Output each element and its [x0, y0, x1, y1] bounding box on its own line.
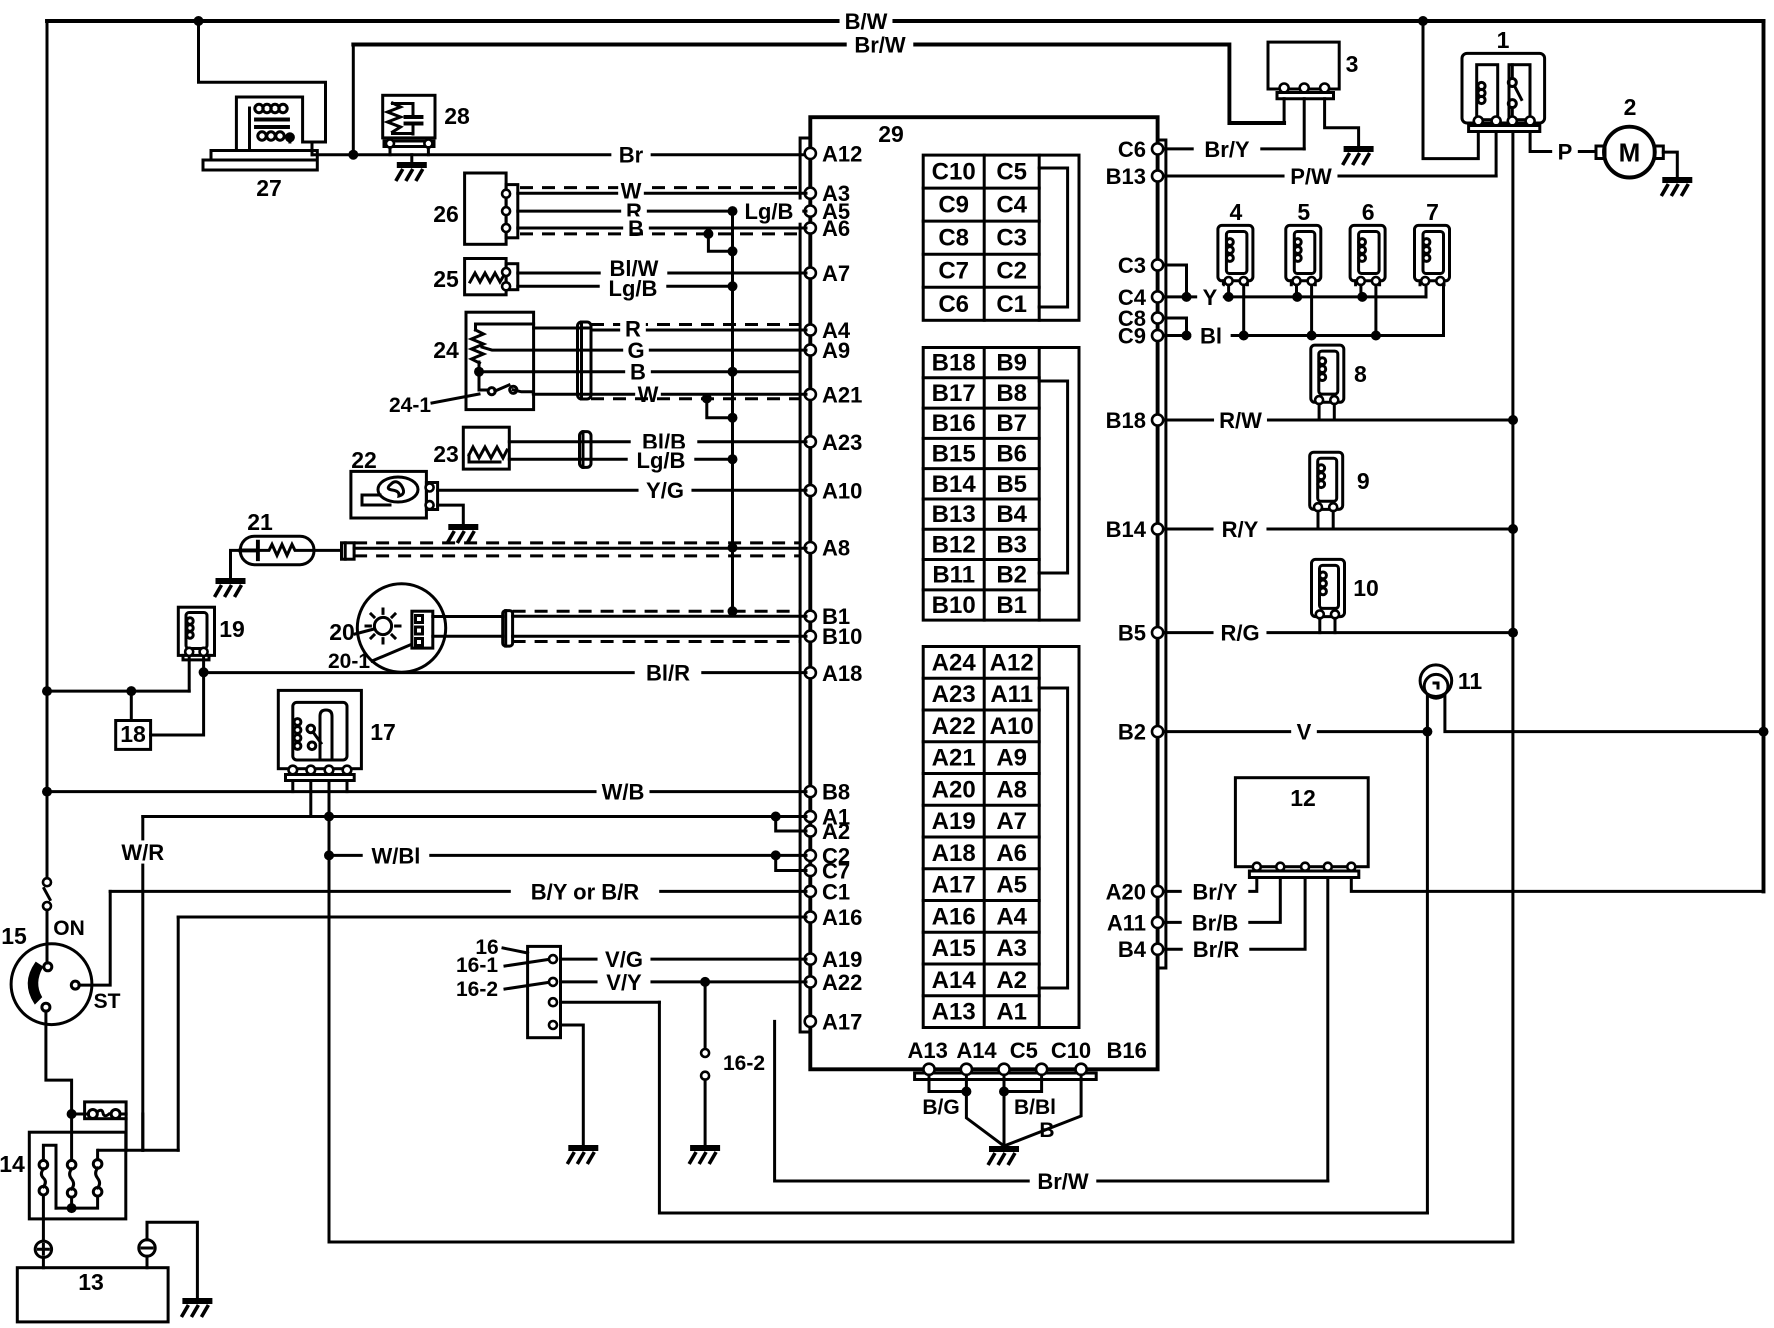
fusible link box 14 — [29, 1132, 126, 1219]
svg-text:M: M — [1619, 138, 1641, 168]
ECU pin C4 — [1152, 291, 1163, 302]
wire igniter pin4 to Br/W bottom bus — [1326, 878, 1329, 1182]
svg-text:2: 2 — [1624, 94, 1637, 120]
ground below condenser 28 — [396, 165, 427, 181]
relay 17 contacts — [307, 725, 315, 733]
wire link2 top to fuse bus — [70, 1114, 73, 1160]
svg-text:ST: ST — [94, 990, 121, 1013]
ECU pin B8 — [805, 786, 816, 797]
label R/W — [1214, 408, 1267, 433]
svg-text:A23: A23 — [822, 430, 862, 455]
svg-text:B: B — [628, 216, 644, 241]
ECU pin C2 — [805, 850, 816, 861]
ECU pin B5 — [1152, 627, 1163, 638]
wire ECU B16 to ground — [1004, 1075, 1081, 1146]
junction dot Lg/B 23 — [728, 454, 738, 464]
AFM 24-1 leader line — [432, 394, 479, 403]
svg-text:Bl: Bl — [1200, 323, 1222, 348]
injector 5 body — [1286, 225, 1321, 280]
svg-text:Bl/R: Bl/R — [646, 660, 690, 685]
ECU pin A20 — [1152, 886, 1163, 897]
wire relay 19 left pin down — [188, 656, 191, 691]
svg-text:A10: A10 — [822, 479, 862, 504]
wire link1 top loop — [43, 1145, 56, 1208]
ECU pin B18 — [1152, 414, 1163, 425]
svg-text:A3: A3 — [996, 935, 1027, 962]
svg-text:Br/W: Br/W — [1037, 1169, 1089, 1194]
junction dot Lg/B A5 — [728, 206, 738, 216]
label V/Y — [598, 970, 651, 995]
wire injector 6 left pin drop — [1359, 285, 1362, 297]
svg-text:A21: A21 — [822, 382, 862, 407]
wire diode 18 to feed bus — [130, 691, 133, 720]
wire igniter pin5 to B/W right edge — [1351, 732, 1763, 892]
wire R/W from ECU B18 to coil 8 and relay feed — [1160, 419, 1513, 422]
wire battery negative to ground — [147, 1222, 197, 1298]
junction dot B 24 — [728, 367, 738, 377]
relay 19 box — [178, 607, 214, 655]
svg-text:A19: A19 — [822, 947, 862, 972]
ground ECU main — [988, 1149, 1019, 1165]
wire sensor 22 to ground — [438, 505, 464, 524]
sensor 26 pins — [502, 190, 510, 198]
wire R from sensor 26 to ECU A5 — [518, 210, 806, 213]
ECU pin A9 — [805, 344, 816, 355]
wire feed bus to relay 19 — [47, 690, 189, 693]
ECU pin A11 — [1152, 917, 1163, 928]
ECU pin A5 — [805, 206, 816, 217]
junction dot V/Y test branch — [700, 977, 710, 987]
svg-text:B12: B12 — [932, 531, 976, 558]
ECU pin A3 — [805, 188, 816, 199]
ECU pin A23 — [805, 436, 816, 447]
inline connector for 23 — [580, 432, 592, 468]
wire W/Bl line to ECU C2 — [329, 854, 806, 857]
junction dot fuse bus — [67, 1109, 77, 1119]
svg-text:28: 28 — [444, 103, 470, 129]
oxygen sensor 22 pins — [426, 484, 434, 492]
wire motor 2 to ground — [1663, 152, 1677, 177]
svg-text:A8: A8 — [996, 776, 1027, 803]
battery positive terminal — [35, 1241, 51, 1257]
ECU pin A12 — [805, 148, 816, 159]
wire Y rail from ECU C4 to injectors — [1160, 295, 1426, 298]
junction dot R/W feed — [1508, 415, 1518, 425]
svg-text:R/G: R/G — [1220, 621, 1259, 646]
svg-text:20-1: 20-1 — [328, 650, 370, 673]
svg-text:29: 29 — [878, 121, 904, 147]
wire connector 16 pin3 to bottom bus 2 — [561, 1001, 660, 1004]
sensor 25 pins — [502, 268, 510, 276]
ground battery — [181, 1301, 212, 1317]
wire W/R lower vertical — [141, 1114, 144, 1150]
svg-text:B6: B6 — [996, 441, 1027, 468]
wire V/G from 16-1 to ECU A19 — [561, 958, 807, 961]
wire bottom bus 3 from relay 17 to relay 1 pin3 — [329, 1241, 1513, 1244]
ECU pin B13 — [1152, 170, 1163, 181]
wire B/W drop to relay 1 pin1 — [1423, 21, 1478, 159]
svg-text:Br/Y: Br/Y — [1192, 879, 1238, 904]
ignition switch 15 contacts — [44, 963, 52, 971]
svg-text:B10: B10 — [932, 592, 976, 619]
relay 1 coil chamber — [1477, 65, 1498, 120]
wire coil 10 pins to rail — [1320, 618, 1335, 632]
label P/W — [1285, 164, 1338, 189]
relay 1 box — [1462, 53, 1545, 123]
svg-text:14: 14 — [0, 1151, 25, 1177]
svg-text:C5: C5 — [1010, 1038, 1038, 1063]
label R/Y — [1214, 517, 1267, 542]
label W/B — [597, 780, 650, 805]
label P — [1552, 139, 1578, 164]
svg-text:A12: A12 — [822, 141, 862, 166]
relay 1 bracket — [1469, 126, 1540, 132]
svg-text:A6: A6 — [822, 216, 850, 241]
wire R/G from ECU B5 to coil 10 and feed — [1160, 631, 1513, 634]
svg-text:B9: B9 — [996, 350, 1027, 377]
label Lg/B mid — [600, 276, 667, 301]
junction dot C8-Bl — [1182, 331, 1192, 341]
shield dashed R — [591, 323, 800, 326]
wire Br/Y from ECU C6 to box 3 — [1160, 147, 1304, 150]
ECU pin A1 — [805, 811, 816, 822]
wire condenser 28 left pin to Br — [389, 148, 392, 155]
injector 7 pins — [1420, 281, 1444, 285]
svg-text:A24: A24 — [932, 649, 977, 676]
svg-text:15: 15 — [1, 923, 27, 949]
shield dashed A8 top — [354, 541, 800, 544]
ECU pin A6 — [805, 222, 816, 233]
injector 6 pins — [1356, 281, 1380, 285]
wire bottom bus 2 from connector 16 to component 11 — [659, 1002, 1427, 1213]
ECU pin A2 — [805, 825, 816, 836]
svg-text:B8: B8 — [822, 780, 850, 805]
wire relay 19 right pin to Bl/R — [151, 656, 204, 735]
AFM 24-1 pump contact switch — [488, 388, 495, 395]
svg-text:B: B — [1039, 1119, 1054, 1142]
svg-text:B14: B14 — [1106, 517, 1147, 542]
wire A16 line — [178, 916, 806, 919]
label B/W — [840, 9, 893, 34]
label Bl/R — [635, 660, 702, 685]
wire ECU A14 to ground — [966, 1075, 1004, 1146]
wire A1 line — [143, 815, 806, 818]
AFM 24 wiper — [482, 347, 534, 350]
svg-text:R/W: R/W — [1219, 408, 1262, 433]
svg-text:B/Bl: B/Bl — [1014, 1096, 1056, 1119]
connector 16 box — [528, 946, 561, 1037]
svg-text:C1: C1 — [996, 291, 1027, 318]
svg-text:P: P — [1558, 139, 1573, 164]
label Lg/B lower — [628, 448, 695, 473]
wire 16-2 to ground — [704, 1080, 707, 1145]
svg-text:19: 19 — [219, 616, 245, 642]
junction dot feed bus diode — [126, 686, 136, 696]
shield dashed W — [520, 186, 800, 189]
node 16-2 break upper — [701, 1049, 709, 1057]
ECU pin A8 — [805, 542, 816, 553]
svg-text:A6: A6 — [996, 840, 1027, 867]
junction dot R/G feed — [1508, 628, 1518, 638]
svg-text:A22: A22 — [932, 713, 976, 740]
wire injector 5 left pin drop — [1295, 285, 1298, 297]
svg-text:16-2: 16-2 — [723, 1052, 765, 1075]
node 16-2 break lower — [701, 1072, 709, 1080]
fuel pump motor 2 — [1604, 127, 1655, 178]
junction dot hook — [728, 246, 738, 256]
shielded cable connector A8 — [342, 543, 355, 559]
wire knock sensor to ground — [231, 550, 241, 578]
svg-text:1: 1 — [1497, 27, 1510, 53]
svg-text:B4: B4 — [996, 501, 1027, 528]
relay 1 pins — [1474, 117, 1483, 126]
svg-text:C6: C6 — [1118, 137, 1146, 162]
battery negative terminal — [139, 1240, 155, 1256]
injector 4 body — [1218, 225, 1253, 280]
label B upper — [623, 216, 649, 241]
svg-text:B7: B7 — [996, 410, 1027, 437]
wire ignition switch to fuse bus — [46, 1011, 72, 1114]
svg-text:A20: A20 — [1106, 879, 1146, 904]
junction dot Lg/B 25 — [728, 281, 738, 291]
junction dot B/W to relay 1 — [1418, 16, 1428, 26]
relay 17 pins — [289, 766, 298, 775]
svg-text:B2: B2 — [996, 562, 1027, 589]
condenser 28 pins — [386, 140, 394, 148]
ECU connector table A — [923, 647, 1079, 1028]
wire relay 1 pin2 to P/W — [1495, 132, 1498, 177]
svg-text:3: 3 — [1346, 51, 1359, 77]
ECU pin C3 — [1152, 259, 1163, 270]
junction dot Bl/R branch — [199, 667, 209, 677]
svg-text:B18: B18 — [932, 350, 976, 377]
label Br/Y lower — [1182, 879, 1249, 904]
svg-text:24: 24 — [433, 337, 459, 363]
svg-text:12: 12 — [1290, 785, 1316, 811]
ECU pin A10 — [805, 485, 816, 496]
svg-text:B3: B3 — [996, 531, 1027, 558]
ECU pin A21 — [805, 389, 816, 400]
junction dot B/G — [961, 1087, 971, 1097]
wire left vertical connector break — [43, 878, 51, 886]
junction dot W hook — [728, 413, 738, 423]
svg-text:W/Bl: W/Bl — [372, 843, 421, 868]
relay 1 switch chamber — [1509, 65, 1530, 120]
svg-text:Br/R: Br/R — [1193, 937, 1240, 962]
ECU pin A7 — [805, 267, 816, 278]
svg-text:4: 4 — [1230, 199, 1243, 225]
condenser 28 connector bracket — [384, 141, 434, 147]
svg-text:6: 6 — [1362, 199, 1375, 225]
svg-text:10: 10 — [1353, 575, 1379, 601]
wire B/Y or B/R line to ECU C1 — [110, 890, 806, 893]
svg-text:A15: A15 — [932, 935, 976, 962]
connector 16 leader lines — [503, 948, 548, 989]
wire Br/Y from ECU A20 to igniter pin1 — [1160, 878, 1257, 892]
svg-text:C10: C10 — [932, 159, 976, 186]
wire condenser 28 right pin to Br — [427, 148, 430, 155]
ECU pin B10 — [805, 631, 816, 642]
svg-text:27: 27 — [256, 175, 282, 201]
svg-text:A23: A23 — [932, 681, 976, 708]
svg-text:A13: A13 — [932, 999, 976, 1026]
distributor 20 housing — [357, 584, 445, 672]
ECU 29 box — [810, 117, 1157, 1069]
connector 16 pins — [549, 955, 557, 963]
svg-text:A18: A18 — [932, 840, 976, 867]
knock sensor 21 crystal — [240, 542, 258, 560]
svg-text:Br/B: Br/B — [1192, 910, 1238, 935]
svg-text:C10: C10 — [1051, 1038, 1091, 1063]
svg-text:C9: C9 — [938, 192, 969, 219]
svg-text:16-1: 16-1 — [456, 954, 498, 977]
ECU pin C6 — [1152, 143, 1163, 154]
wire injector 7 left pin riser — [1425, 285, 1428, 297]
oxygen sensor 22 element — [378, 477, 418, 502]
wire B from AFM — [534, 370, 800, 373]
svg-text:A14: A14 — [956, 1038, 997, 1063]
svg-text:A5: A5 — [996, 872, 1027, 899]
svg-text:Y: Y — [1203, 285, 1218, 310]
svg-text:B13: B13 — [932, 501, 976, 528]
fuse holder box — [85, 1102, 127, 1119]
ECU pin A17 — [805, 1016, 816, 1027]
junction dot C2-C7 branch — [771, 850, 781, 860]
wire A16 vertical — [177, 917, 180, 1150]
ECU pin B14 — [1152, 523, 1163, 534]
junction dot B1 shield — [728, 606, 738, 616]
svg-text:A4: A4 — [996, 903, 1027, 930]
condenser 28 resistor zigzag — [388, 103, 401, 132]
wire relay 1 pin4 to motor — [1530, 132, 1596, 152]
svg-text:C7: C7 — [938, 258, 969, 285]
junction dot link bottom bus — [67, 1203, 77, 1213]
label W/R — [116, 840, 169, 865]
svg-text:B17: B17 — [932, 380, 976, 407]
junction dot W/Bl pin3 — [324, 850, 334, 860]
junction dot A1 pin3 — [324, 812, 334, 822]
wire injector 4 right pin drop — [1242, 285, 1245, 336]
wire Bl/W from sensor 25 to ECU A7 — [518, 272, 806, 275]
ECU left pin strip — [800, 138, 810, 1032]
ground below connector 16 — [567, 1148, 598, 1164]
svg-text:A11: A11 — [1107, 910, 1146, 935]
svg-text:20: 20 — [329, 619, 355, 645]
junction dot A1-A2 branch — [771, 812, 781, 822]
ignition switch 15 lever — [29, 963, 42, 1003]
svg-text:V/G: V/G — [605, 947, 643, 972]
wire B from sensor 26 to ECU A6 — [518, 227, 806, 230]
ignition coil 27 body outline — [236, 97, 325, 151]
label Bl/B — [631, 430, 698, 455]
AFM 24 internal node — [476, 324, 534, 330]
junction dot W/B at left vertical — [42, 787, 52, 797]
svg-text:18: 18 — [120, 721, 146, 747]
junction dot V right edge — [1759, 727, 1769, 737]
svg-text:B5: B5 — [996, 471, 1027, 498]
label Bl — [1191, 323, 1230, 348]
wire relay 17 pin1 to W/B bus — [291, 781, 294, 792]
label Br/B — [1182, 910, 1249, 935]
label Br/Y top — [1194, 137, 1261, 162]
svg-text:A7: A7 — [996, 808, 1027, 835]
svg-text:V: V — [1297, 720, 1312, 745]
wire component 11 right lead and V continuation — [1445, 696, 1764, 732]
svg-text:5: 5 — [1297, 199, 1310, 225]
sensor 26 connector strip — [506, 185, 518, 238]
igniter 12 pins — [1253, 863, 1261, 871]
svg-text:A12: A12 — [990, 649, 1034, 676]
label R upper — [621, 199, 647, 224]
wire P/W from ECU B13 to relay 1 — [1160, 175, 1496, 178]
label Bl/W — [601, 256, 668, 281]
wire Br/W top bus — [353, 45, 1284, 124]
ECU pin A19 — [805, 954, 816, 965]
ECU pin A13 — [923, 1064, 934, 1075]
svg-text:V/Y: V/Y — [606, 970, 642, 995]
svg-text:Br/W: Br/W — [854, 32, 906, 57]
injector 7 body — [1415, 225, 1450, 280]
ECU pin B16 — [1076, 1064, 1087, 1075]
shield dashed B — [520, 232, 800, 235]
relay 1 switch contacts — [1508, 79, 1516, 87]
svg-text:A14: A14 — [932, 967, 977, 994]
wire B1 to ECU — [513, 615, 806, 618]
wire Bl rail from ECU C9 to injectors — [1160, 334, 1444, 337]
wire W/B bus — [47, 790, 806, 793]
svg-text:Br: Br — [619, 143, 644, 168]
wire distributor B1 to connector — [433, 617, 503, 637]
ECU pin A4 — [805, 324, 816, 335]
svg-text:A18: A18 — [822, 661, 862, 686]
wire knock signal to ECU A8 — [314, 548, 806, 550]
svg-text:Lg/B: Lg/B — [609, 276, 658, 301]
svg-text:A19: A19 — [932, 808, 976, 835]
label Lg/B at A5 — [736, 199, 803, 224]
junction dot B/Bl — [999, 1087, 1009, 1097]
svg-text:A10: A10 — [990, 713, 1034, 740]
relay 1 coil winding — [1478, 82, 1485, 89]
ECU pin C5 — [998, 1064, 1009, 1075]
svg-text:B16: B16 — [932, 410, 976, 437]
resistor box 3 bracket — [1277, 93, 1334, 99]
svg-text:W/B: W/B — [602, 780, 645, 805]
wire 16-2 test connector drop — [704, 982, 707, 1049]
wire A2 branch — [776, 817, 806, 832]
wire V from ECU B2 — [1160, 730, 1427, 733]
svg-text:B: B — [630, 360, 646, 385]
wire Bl/R to ECU A18 — [204, 671, 806, 674]
wire link bottom bus — [56, 1196, 98, 1208]
relay 19 pins — [185, 648, 193, 656]
svg-text:W/R: W/R — [121, 840, 164, 865]
label G — [623, 338, 649, 363]
svg-text:B2: B2 — [1118, 720, 1146, 745]
wire relay 17 pin3 long drop — [328, 781, 331, 1243]
ignition coil 27 junction dot — [285, 132, 295, 142]
svg-text:C9: C9 — [1118, 324, 1146, 349]
wire component 11 left lead — [1426, 695, 1429, 732]
svg-text:23: 23 — [433, 441, 459, 467]
battery 13 box — [17, 1268, 168, 1322]
coil 8 pins — [1315, 396, 1323, 404]
shield dashed B10 — [513, 640, 800, 643]
ground below box 3 — [1343, 149, 1374, 165]
coil 10 pins — [1316, 610, 1324, 618]
label R lower — [620, 316, 646, 341]
wire coil 8 pins to rail — [1319, 404, 1334, 420]
relay 17 armature tongue — [320, 710, 332, 760]
